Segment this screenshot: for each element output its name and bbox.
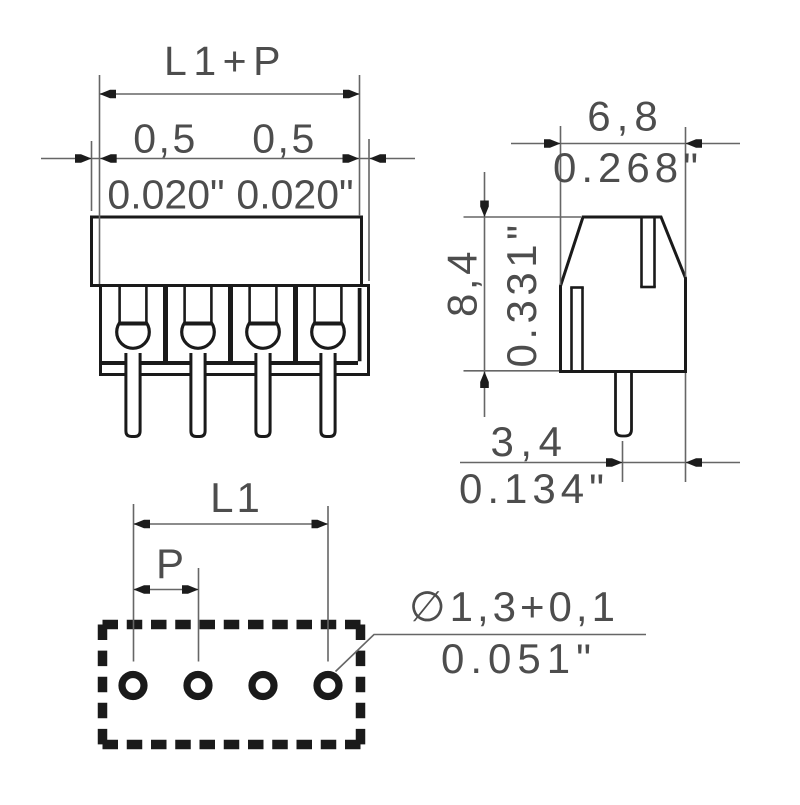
svg-text:0,5: 0,5	[252, 116, 317, 162]
footprint outline (dashed)	[103, 625, 361, 745]
arrow L1+P right	[343, 90, 360, 99]
extension line L1 left / P left	[133, 504, 135, 662]
arrow 0,5 left inner	[100, 154, 117, 163]
svg-text:∅1,3+0,1: ∅1,3+0,1	[409, 583, 619, 630]
arrow P right	[182, 585, 199, 594]
extension line P right	[198, 568, 200, 662]
clamp contact 2	[182, 287, 215, 348]
side view upper slot	[640, 219, 656, 288]
chamber divider wall 1	[163, 287, 168, 362]
leader line to hole diameter	[336, 635, 647, 672]
extension line 6,8 left	[560, 126, 562, 285]
hole 3	[252, 675, 274, 697]
extension line pin centre (3,4)	[622, 441, 624, 482]
arrow P left	[134, 585, 151, 594]
clamp contact 4	[312, 287, 345, 348]
arrow 3,4 right	[686, 458, 703, 467]
end wall inner line (right)	[358, 288, 362, 361]
extension line 8,4 top	[464, 216, 582, 218]
arrow 8,4 bottom	[480, 372, 489, 389]
arrow 6,8 left	[544, 139, 561, 148]
arrow 3,4 left	[606, 458, 623, 467]
arrow 6,8 right	[686, 139, 703, 148]
solder pin 4 (front)	[321, 353, 335, 437]
side view lower slot	[570, 288, 584, 371]
arrow 0,5 right outer	[343, 154, 360, 163]
chamber divider wall 3	[293, 287, 298, 362]
svg-text:L1: L1	[210, 474, 263, 521]
arrow 0,5 right inner	[370, 154, 387, 163]
svg-text:P: P	[156, 540, 184, 587]
front view lower housing body	[101, 286, 369, 375]
extension line 8,4 bottom	[464, 370, 560, 372]
front view cover (upper housing)	[92, 217, 362, 286]
clamp contact 3	[247, 287, 280, 348]
extension line left (L1+P)	[99, 75, 101, 284]
svg-text:0.268": 0.268"	[553, 144, 703, 191]
svg-text:6,8: 6,8	[587, 93, 663, 140]
svg-text:0,5: 0,5	[133, 116, 198, 162]
svg-text:3,4: 3,4	[491, 418, 569, 465]
hole 2	[187, 675, 209, 697]
arrow 8,4 top	[480, 201, 489, 218]
extension line lower body right edge	[368, 139, 370, 281]
clamp contact 1	[117, 287, 150, 348]
arrow L1 right	[312, 520, 329, 529]
svg-text:0.134": 0.134"	[459, 465, 609, 512]
dimension line L1	[134, 523, 329, 525]
extension line right lower (3,4)	[685, 373, 687, 482]
side view housing outline	[561, 217, 686, 372]
svg-text:0.020": 0.020"	[236, 172, 353, 218]
solder pin (side)	[616, 373, 632, 436]
svg-text:0.331": 0.331"	[498, 220, 545, 367]
solder pin 3 (front)	[256, 353, 270, 437]
dimension line P	[134, 589, 199, 591]
dimension line 0,5 row	[41, 158, 415, 160]
arrow L1+P left	[100, 90, 117, 99]
extension line cover left edge	[91, 141, 93, 211]
solder pin 2 (front)	[191, 353, 205, 437]
arrow 0,5 left outer	[75, 154, 92, 163]
chamber divider wall 2	[228, 287, 233, 362]
svg-text:0.051": 0.051"	[441, 635, 597, 682]
solder pin 1 (front)	[126, 353, 140, 437]
dimension line 3,4	[460, 462, 740, 464]
svg-text:0.020": 0.020"	[107, 172, 224, 218]
svg-text:L1+P: L1+P	[164, 38, 287, 84]
dimension line 6,8	[511, 143, 740, 145]
front view chamber floor line	[101, 361, 358, 365]
dimension line 8,4 (vertical)	[484, 172, 486, 417]
extension line 6,8 / 3,4 right upper	[685, 127, 687, 277]
hole 4	[317, 675, 339, 697]
extension line right (L1+P)	[359, 75, 361, 216]
arrow L1 left	[134, 520, 151, 529]
svg-text:8,4: 8,4	[439, 248, 486, 317]
extension line L1 right	[327, 506, 329, 662]
hole 1	[122, 675, 144, 697]
dimension line L1+P	[100, 93, 360, 95]
